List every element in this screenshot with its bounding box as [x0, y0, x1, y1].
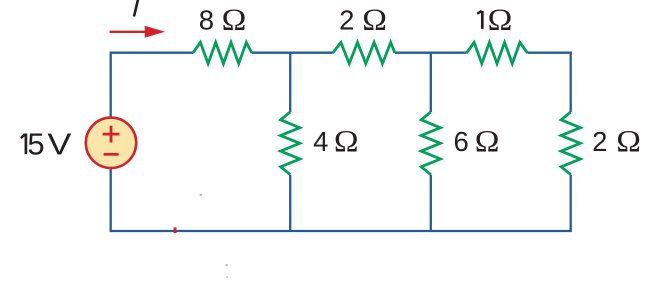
svg-text:Ω: Ω [488, 3, 513, 36]
svg-text:Ω: Ω [222, 3, 247, 36]
svg-text:2: 2 [592, 126, 607, 157]
resistor 1-ohm (top horizontal) [467, 42, 528, 63]
wire: 6-ohm lower stub [430, 175, 432, 231]
stray faint gray speck 1 [226, 264, 228, 266]
stray faint gray speck 2 [226, 276, 228, 278]
resistor 8-ohm (top horizontal) [193, 42, 252, 63]
wire: top right corner down right side [528, 53, 571, 112]
wire: node A branch (4-ohm) upper stub [289, 53, 291, 112]
svg-text:5: 5 [27, 126, 44, 161]
resistor 2-ohm (top horizontal) [333, 42, 395, 63]
label 1 ohm : digit 1 drawn (footless) [481, 11, 484, 29]
wire: node B branch (6-ohm) upper stub [430, 53, 432, 112]
resistor 2-ohm (right vertical) [561, 112, 580, 175]
svg-text:2: 2 [339, 5, 354, 36]
junction mark (red tick on bottom rail) [174, 227, 177, 233]
current arrow I (red) [110, 31, 147, 33]
svg-text:Ω: Ω [362, 3, 387, 36]
wire: top between 8-ohm and 2-ohm [252, 52, 333, 54]
stray faint red speck [200, 194, 202, 196]
svg-text:Ω: Ω [616, 124, 641, 157]
svg-text:4: 4 [313, 126, 328, 157]
wire: bottom rail [110, 230, 572, 232]
resistor 6-ohm (vertical) [421, 112, 440, 175]
wire: left side (source branch) and top-left segment to 8-ohm [111, 53, 193, 231]
voltage source plus sign [103, 126, 120, 143]
wire: right side below 2-ohm resistor [570, 175, 572, 231]
svg-text:Ω: Ω [475, 124, 500, 157]
wire: 4-ohm lower stub [289, 175, 291, 231]
svg-text:6: 6 [454, 126, 469, 157]
label 15 V : digit 1 drawn (footless) [25, 134, 28, 155]
voltage source 15 V (circle symbol) [86, 118, 136, 168]
resistor 4-ohm (vertical) [281, 112, 300, 175]
svg-text:V: V [47, 128, 72, 162]
label I (italic, clipped at top) [134, 0, 139, 17]
wire: top between 2-ohm and 1-ohm [395, 52, 467, 54]
voltage source minus sign [104, 153, 119, 156]
svg-text:8: 8 [199, 5, 214, 36]
svg-text:Ω: Ω [334, 124, 359, 157]
